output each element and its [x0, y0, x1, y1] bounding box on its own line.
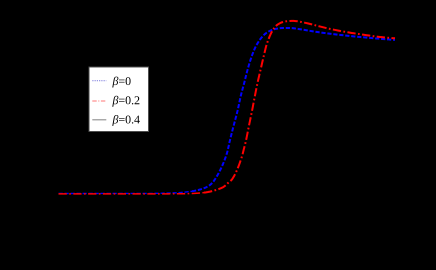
legend sample beta=0 (blue dotted) [92, 80, 106, 82]
legend label beta=0 [112, 77, 130, 88]
legend sample beta=0.2 (red dash-dot) [92, 100, 106, 102]
curve beta=0.2 (red dash-dot) [204, 21, 395, 193]
curve beta=0 (blue dotted) [192, 28, 395, 191]
curve beta=0 flat tail (blue dotted, thin) [59, 191, 193, 193]
legend sample beta=0.4 (black solid) [92, 119, 106, 121]
legend label beta=0.2 [112, 96, 139, 107]
legend box [89, 67, 149, 132]
legend label beta=0.4 [112, 115, 140, 126]
curve beta=0.2 flat tail (red dash-dot, thin) [59, 193, 205, 194]
